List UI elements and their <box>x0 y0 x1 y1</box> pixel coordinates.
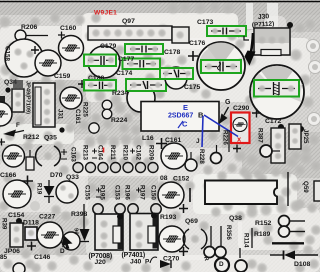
svg-text:C178: C178 <box>164 49 180 56</box>
svg-text:C162: C162 <box>135 145 142 161</box>
pad circle with stem (R228) <box>185 152 197 171</box>
svg-text:C153: C153 <box>114 185 121 200</box>
svg-text:C179: C179 <box>100 43 116 50</box>
plus mark C160 <box>58 32 65 39</box>
plus mark near R193 <box>179 204 188 213</box>
capacitor C161b (electrolytic) <box>161 143 187 169</box>
svg-text:C177: C177 <box>118 56 134 63</box>
blue leader line to C290 <box>204 115 238 137</box>
svg-text:D70: D70 <box>50 172 63 179</box>
svg-text:R356: R356 <box>225 225 232 240</box>
connector body small left <box>12 89 24 112</box>
svg-text:R398: R398 <box>71 211 87 218</box>
svg-text:R210: R210 <box>122 145 129 161</box>
svg-text:C159: C159 <box>54 73 70 80</box>
svg-text:W9JE1: W9JE1 <box>94 10 117 17</box>
svg-text:Q69: Q69 <box>185 218 198 225</box>
svg-text:J: J <box>196 138 200 145</box>
svg-text:L16: L16 <box>142 135 154 142</box>
plus mark near L16 <box>156 138 167 149</box>
red tick on C164 <box>103 148 105 153</box>
wire vertical right of IC <box>287 172 289 206</box>
svg-text:R213: R213 <box>82 145 89 161</box>
svg-text:85: 85 <box>0 254 8 261</box>
capacitor C163 vertical label with plus marks <box>61 147 77 162</box>
svg-text:C: C <box>182 120 188 129</box>
svg-text:C174: C174 <box>116 70 132 77</box>
svg-text:JP25: JP25 <box>302 129 309 144</box>
component square D118 <box>25 227 37 240</box>
transistor circle left (C158) <box>5 39 43 77</box>
svg-text:R224: R224 <box>111 117 127 124</box>
svg-text:C146: C146 <box>34 254 50 261</box>
resistor R152 pad and wire <box>279 216 306 227</box>
svg-text:R193: R193 <box>160 214 176 221</box>
annotation arrow from J30 into C176 <box>245 33 256 66</box>
svg-text:C164: C164 <box>97 145 104 161</box>
svg-text:C290: C290 <box>233 105 249 112</box>
svg-text:J31: J31 <box>57 109 64 120</box>
capacitor C159 (electrolytic) <box>35 50 61 76</box>
svg-text:G: G <box>225 99 231 106</box>
pad ring bottom-left <box>13 263 25 272</box>
dark component top of JP area <box>13 80 23 88</box>
capacitor C156 (electrolytic) <box>3 180 31 208</box>
svg-text:J40: J40 <box>130 259 142 266</box>
plus mark near C290 <box>252 109 261 118</box>
IC body (DIP outline) <box>205 181 277 205</box>
svg-text:D: D <box>60 248 65 255</box>
lighter scan patches <box>82 13 238 49</box>
resistor/capacitor row 2 labels (vertical) <box>84 185 157 200</box>
svg-text:2SD667: 2SD667 <box>168 113 193 120</box>
component body right a <box>271 128 285 163</box>
svg-text:C173: C173 <box>197 19 213 26</box>
capacitor C152 body (electrolytic) <box>158 182 184 208</box>
capacitor highlight green G1 <box>84 55 116 67</box>
transistor circle lower-left <box>56 181 78 203</box>
capacitor C166 (electrolytic) <box>3 145 25 167</box>
pad dot JP25 a <box>278 124 284 136</box>
connector JP06 body <box>10 223 23 247</box>
pads R225 <box>89 100 112 133</box>
plus mark near C270 <box>179 247 188 256</box>
pad circle row under labels <box>73 163 158 173</box>
curl mark after P <box>150 257 157 263</box>
capacitor lead bar <box>189 188 191 202</box>
capacitor highlight green G3 <box>123 59 161 70</box>
plus mark near C176 <box>188 51 198 61</box>
svg-text:Q97: Q97 <box>122 18 135 25</box>
svg-text:R196: R196 <box>124 185 131 200</box>
svg-text:R189: R189 <box>254 231 270 238</box>
pad dot JP25 b <box>298 126 304 140</box>
svg-text:C152: C152 <box>173 176 189 183</box>
small component with stem <box>26 150 34 170</box>
resistor R114 vertical label <box>243 228 253 248</box>
lead bracket below C173 <box>244 36 249 40</box>
white silkscreen box L16 area <box>141 102 219 132</box>
transistor circle (arcs) Q69 <box>183 229 207 249</box>
capacitor C270 (electrolytic) <box>159 226 185 252</box>
darker scan band top <box>0 2 320 15</box>
light stripes top right <box>246 3 253 29</box>
capacitor C290 body with red highlight box <box>231 113 250 144</box>
capacitor highlight green G7 (C173) <box>207 26 246 36</box>
pad circle with stem (R226) <box>211 145 222 164</box>
svg-text:Q33: Q33 <box>66 174 79 181</box>
plus mark below red box <box>233 145 241 153</box>
svg-text:C154: C154 <box>8 212 24 219</box>
diode at left of J20 <box>80 204 90 242</box>
handwritten slash (blue) <box>178 121 183 128</box>
svg-text:R226: R226 <box>222 130 229 145</box>
component black left edge <box>0 96 5 105</box>
pad rings pair with stems <box>204 226 229 272</box>
component right edge <box>314 181 320 201</box>
connector J20 body <box>95 214 123 251</box>
svg-text:R228: R228 <box>198 149 205 164</box>
capacitor highlight green G6 <box>126 79 166 91</box>
electrolytic partial left edge <box>0 102 12 126</box>
pad small <box>30 201 40 211</box>
svg-text:R39: R39 <box>1 218 8 230</box>
capacitor highlight green G4 (C175) <box>160 68 193 79</box>
transistor Q97 body <box>88 26 189 43</box>
svg-text:C161: C161 <box>74 109 81 124</box>
svg-text:C155: C155 <box>84 185 91 200</box>
annotation cursor arrow <box>62 235 72 249</box>
connector JP49 body <box>33 83 55 127</box>
capacitor C146 (electrolytic) <box>37 222 63 248</box>
svg-text:E: E <box>183 103 188 112</box>
svg-text:R152: R152 <box>255 220 271 227</box>
svg-text:R225: R225 <box>82 102 89 117</box>
diode D108 <box>270 251 318 260</box>
svg-text:C176: C176 <box>189 40 205 47</box>
wire stub <box>239 248 241 258</box>
pad circle row above connectors <box>93 204 161 214</box>
capacitor highlight green G5 <box>84 80 116 91</box>
plus mark near C180 <box>78 80 86 88</box>
svg-text:JP49(P7109): JP49(P7109) <box>25 81 31 114</box>
svg-text:J30: J30 <box>258 13 270 21</box>
connector J40 body <box>130 213 158 251</box>
svg-text:C158: C158 <box>4 46 11 62</box>
svg-text:R209: R209 <box>148 145 155 161</box>
large circle right <box>250 65 304 119</box>
annotation arrow below G <box>219 107 229 124</box>
plus mark below square <box>27 242 36 251</box>
capacitor C176 body (large) <box>197 42 245 90</box>
svg-text:R211: R211 <box>109 145 116 160</box>
diode D70 <box>44 180 55 203</box>
resistor/capacitor row labels (vertical) <box>82 145 155 161</box>
svg-text:C163: C163 <box>70 147 77 162</box>
svg-text:R19: R19 <box>36 183 43 195</box>
black top edge line <box>0 1 320 3</box>
svg-text:R212: R212 <box>23 134 39 141</box>
wire bar bottom right <box>272 242 304 244</box>
svg-text:R206: R206 <box>21 24 37 31</box>
svg-text:C150: C150 <box>150 185 157 200</box>
annotation arrow left <box>3 130 24 137</box>
component body right b <box>289 124 301 149</box>
svg-text:96: 96 <box>73 228 79 235</box>
svg-text:C166: C166 <box>0 172 16 179</box>
capacitor C175 body <box>165 67 187 89</box>
svg-text:D108: D108 <box>294 261 310 268</box>
via pads right edge <box>307 40 320 126</box>
capacitor highlight green G2 <box>125 44 163 54</box>
connector J30 body <box>254 28 290 56</box>
junction dot Q34 <box>5 87 10 92</box>
capacitor C160 (electrolytic) <box>59 36 84 61</box>
svg-text:Q35: Q35 <box>44 135 57 142</box>
capacitor C161 left (electrolytic) <box>60 87 82 109</box>
junction dot J30 <box>287 22 293 28</box>
svg-text:C227: C227 <box>39 214 55 221</box>
diode bottom edge <box>160 260 171 268</box>
svg-text:08: 08 <box>160 175 168 182</box>
svg-text:D118: D118 <box>23 220 39 227</box>
junction dot near J31 <box>59 127 64 132</box>
plus mark C159 <box>31 46 39 54</box>
svg-text:Q59: Q59 <box>302 181 309 193</box>
svg-text:R234: R234 <box>112 90 128 97</box>
svg-text:C172: C172 <box>265 118 281 125</box>
pad ring <box>235 260 247 272</box>
svg-text:R195: R195 <box>99 185 106 200</box>
pad ring with stem <box>260 145 280 157</box>
capacitor highlight green G9 <box>254 80 299 97</box>
pad circle R206 <box>15 30 48 41</box>
plus mark left edge <box>0 139 5 146</box>
svg-text:C160: C160 <box>60 25 76 32</box>
junction dot D118 <box>16 218 22 224</box>
svg-text:Q38: Q38 <box>229 215 242 222</box>
svg-text:C175: C175 <box>184 84 200 91</box>
capacitor highlight green G8 (inside C176) <box>201 60 241 73</box>
transistor circle partial corner <box>62 232 80 250</box>
svg-text:J20: J20 <box>95 259 107 266</box>
svg-text:D: D <box>219 261 224 268</box>
svg-text:P: P <box>145 259 150 266</box>
resistor R189 pad and wire <box>279 226 306 237</box>
svg-text:R197: R197 <box>139 185 146 200</box>
resistor R226 vertical label <box>222 130 230 152</box>
transistor circle under C179 <box>88 46 120 78</box>
blue leader line to base <box>202 116 203 147</box>
plus mark near C166 <box>22 176 33 187</box>
transistor circle (arcs) mid-left <box>36 146 61 166</box>
svg-text:R387: R387 <box>257 128 264 143</box>
transistor circle under R234 <box>127 84 155 112</box>
svg-text:R114: R114 <box>243 233 250 248</box>
svg-text:F: F <box>16 122 20 129</box>
